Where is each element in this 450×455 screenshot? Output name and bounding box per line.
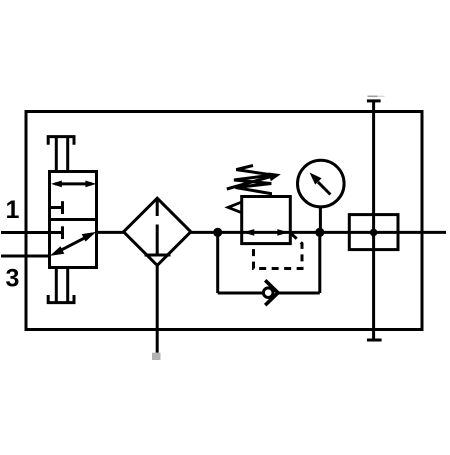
valve V1 body (3/2 shut-off valve)	[50, 172, 97, 268]
regulator R1 relief triangle	[228, 202, 242, 213]
gauge G1	[298, 160, 345, 207]
wire bypass loop left riser	[216, 232, 219, 293]
node outlet center dot	[370, 229, 378, 237]
node junction dot left	[213, 228, 222, 237]
check valve CV1	[263, 288, 273, 298]
valve V1 open-position double arrow	[55, 182, 92, 185]
plug bottom T-bar	[367, 339, 382, 342]
svg-text:1: 1	[6, 196, 20, 224]
wire vertical branch through outlet	[372, 101, 375, 340]
wire port 1 stub	[1, 231, 50, 234]
wire main flow line (filter to outlet)	[191, 231, 447, 234]
valve V1 bottom actuator (push button)	[48, 295, 74, 303]
regulator R1 body	[242, 197, 291, 244]
outlet block B1	[349, 215, 398, 250]
svg-text:3: 3	[6, 265, 20, 293]
filter F1 (diamond with separator)	[124, 198, 191, 265]
valve V1 exhaust diagonal double arrow	[58, 236, 88, 252]
regulator R1 adjustment arrow	[227, 177, 270, 189]
regulator R1 pilot dashed line	[254, 234, 303, 269]
valve V1 blocked port T-mark (upper square)	[50, 206, 62, 209]
valve V1 top actuator (push button)	[48, 137, 74, 145]
enclosure (service unit boundary box)	[26, 112, 422, 330]
regulator R1 adjustment spring	[234, 166, 273, 197]
wire bypass right riser	[318, 232, 321, 293]
plug top T-bar	[367, 99, 381, 102]
regulator R1 flow arrowheads	[243, 229, 255, 236]
valve V1 blocked port T-mark (lower square)	[50, 231, 62, 234]
wire valve to filter	[97, 231, 126, 234]
gauge G1 needle	[318, 182, 330, 194]
filter F1 drain line	[156, 265, 159, 353]
wire bypass bottom right	[278, 292, 320, 295]
node junction dot right	[315, 228, 324, 237]
wire port 3 stub	[1, 255, 50, 258]
filter F1 drain end (gray handle)	[152, 353, 161, 360]
plug top gray mark	[368, 95, 378, 97]
wire bypass bottom left	[218, 292, 263, 295]
